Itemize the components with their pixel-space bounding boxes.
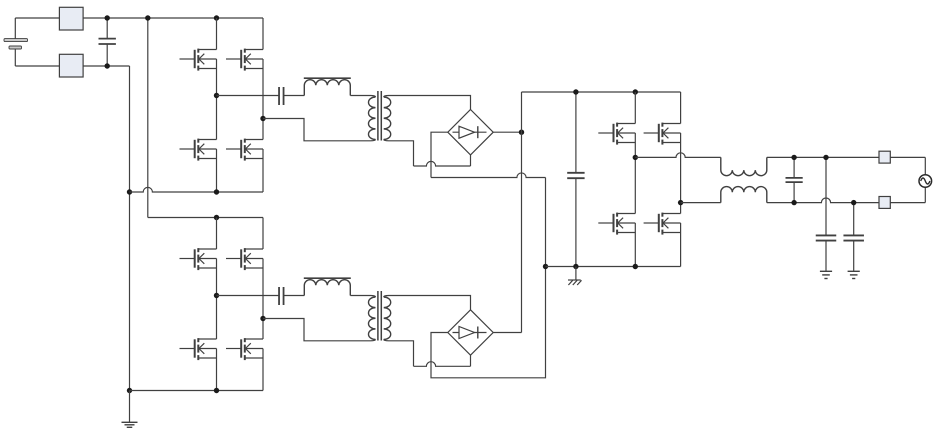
capacitor C6 (line EMI) xyxy=(816,157,837,271)
node upper bridge left midpoint xyxy=(214,93,219,98)
wire lower bridge left drain xyxy=(216,218,218,250)
diode of D2 xyxy=(453,327,487,339)
wire D2 negative out xyxy=(431,267,546,378)
wire inverter out 1 xyxy=(635,153,721,158)
rectifier bridge D1 xyxy=(448,110,493,155)
wire lower bridge top rail xyxy=(148,217,263,219)
transistor Q1 xyxy=(180,49,217,71)
wire dc+ rail xyxy=(522,91,681,93)
node dc- rail / inverter left leg xyxy=(633,264,638,269)
transistor Q10 xyxy=(644,123,681,145)
node inverter left midpoint xyxy=(633,155,638,160)
wire to ac source top xyxy=(924,157,926,174)
transistor Q6 xyxy=(226,248,263,270)
node lower bridge bottom rail / left leg xyxy=(214,388,219,393)
battery B1 xyxy=(4,18,28,66)
transistor Q2 xyxy=(226,49,263,71)
node bottom wire / C1 xyxy=(105,63,110,68)
wire T2 primary return xyxy=(263,319,376,341)
wire inverter right drain xyxy=(680,92,682,124)
transistor Q5 xyxy=(180,248,217,270)
wire negative bus vertical xyxy=(129,66,131,391)
transformer T1 secondary xyxy=(384,97,391,140)
wire inverter left source xyxy=(634,223,636,267)
wire inverter left leg xyxy=(634,133,636,214)
wire secondary to rectifier ac2 (lower) xyxy=(414,362,471,367)
transistor Q4 xyxy=(226,139,263,161)
wire T1 secondary top xyxy=(384,96,471,110)
wire lower bridge right drain xyxy=(262,218,264,250)
wire dc- vertical xyxy=(545,178,547,267)
transistor Q8 xyxy=(226,338,263,360)
wire lower bridge left leg xyxy=(216,259,218,340)
node out1 / C6 xyxy=(823,155,828,160)
node negative / lower bridge return xyxy=(127,388,132,393)
transformer T2 core xyxy=(377,291,379,341)
wire L4 to output xyxy=(767,198,926,203)
capacitor C3 (series) xyxy=(279,287,284,305)
transformer T1 core xyxy=(377,91,379,141)
capacitor C5 (output filter) xyxy=(786,157,803,202)
rectifier bridge D2 xyxy=(448,310,493,355)
node dc- rail / rectifier return xyxy=(543,264,548,269)
ground (dc bus) xyxy=(568,280,582,285)
wire dc+ bus vertical xyxy=(521,92,523,333)
inductor L4 xyxy=(721,187,767,203)
terminal TB1 xyxy=(879,151,890,163)
transistor Q12 xyxy=(644,213,681,235)
wire C2 to L1 xyxy=(284,95,305,97)
core of L2 xyxy=(304,277,351,279)
wire upper bridge right source xyxy=(262,149,264,192)
transformer T2 secondary xyxy=(384,297,391,340)
transistor Q3 xyxy=(180,139,217,161)
capacitor C4 (dc bus) xyxy=(567,92,584,267)
wire upper bridge left drain xyxy=(216,18,218,50)
capacitor C1 (input filter) xyxy=(99,18,116,66)
inductor L2 xyxy=(304,280,350,296)
wire C4 ground stub xyxy=(575,267,577,281)
fuse F1 xyxy=(59,7,83,30)
node top rail / C1 xyxy=(105,15,110,20)
node negative / upper bridge return xyxy=(127,189,132,194)
node dc+ rail / inverter left leg xyxy=(633,89,638,94)
wire D2 positive out xyxy=(493,332,521,334)
node lower bridge right midpoint xyxy=(260,316,265,321)
node dc- rail / C4 xyxy=(573,264,578,269)
wire D1 positive out xyxy=(493,131,521,133)
wire D1 negative to dc bus xyxy=(431,173,546,178)
node out2 / C5 xyxy=(791,200,796,205)
wire lower bridge right source xyxy=(262,349,264,391)
transformer T1 primary xyxy=(369,97,376,140)
capacitor C2 (series) xyxy=(279,87,284,105)
wire positive feed to lower bridge xyxy=(147,18,149,218)
core of L1 xyxy=(304,77,351,79)
wire upper bridge right leg xyxy=(262,59,264,140)
node inverter right midpoint xyxy=(678,200,683,205)
wire L2 to T2 xyxy=(350,296,375,298)
transformer T2 primary xyxy=(369,297,376,340)
node dc+ rail / C4 xyxy=(573,89,578,94)
wire inverter right source xyxy=(680,223,682,267)
ground (battery negative) xyxy=(122,391,138,428)
node upper bridge bottom rail / left leg xyxy=(214,189,219,194)
wire lower bridge right leg xyxy=(262,259,264,340)
wire T1 primary return xyxy=(263,119,376,141)
inductor L1 xyxy=(304,80,350,96)
wire T2 secondary bottom xyxy=(384,340,414,367)
transistor Q7 xyxy=(180,338,217,360)
wire top rail from battery to bridge xyxy=(15,17,263,19)
node out2 / C7 xyxy=(851,200,856,205)
wire upper bridge bottom rail xyxy=(130,187,264,192)
wire upper bridge right drain xyxy=(262,18,264,50)
diode of D1 xyxy=(453,126,487,138)
wire T1 secondary bottom xyxy=(384,140,414,167)
wire lower channel top xyxy=(217,295,280,297)
wire battery negative xyxy=(15,65,129,67)
wire secondary to rectifier ac2 xyxy=(414,161,471,166)
fuse F2 xyxy=(59,54,83,77)
ground (C7) xyxy=(848,271,860,278)
wire L3 to output xyxy=(767,156,926,158)
wire inverter left drain xyxy=(634,92,636,124)
node dc+ bus / D1 xyxy=(519,130,524,135)
wire L1 to T1 xyxy=(350,96,375,98)
wire lower bridge bottom rail xyxy=(130,390,264,392)
node lower bridge left midpoint xyxy=(214,293,219,298)
terminal TB2 xyxy=(879,197,890,209)
wire inverter right leg xyxy=(680,133,682,214)
wire upper channel top xyxy=(217,95,280,97)
wire C3 to L2 xyxy=(284,295,305,297)
inductor L3 xyxy=(721,157,767,175)
wire upper bridge left source xyxy=(216,149,218,192)
wire rectifier D1 bottom vertex xyxy=(470,155,472,166)
wire T2 secondary top xyxy=(384,296,471,310)
ground (C6) xyxy=(820,271,832,278)
transistor Q9 xyxy=(598,123,635,145)
node lower bridge top rail / left leg xyxy=(214,215,219,220)
wire upper bridge left leg xyxy=(216,59,218,140)
node upper bridge right midpoint xyxy=(260,116,265,121)
capacitor C7 (neutral EMI) xyxy=(843,203,864,271)
wire inverter out 2 xyxy=(681,202,721,204)
node top rail / upper bridge left leg xyxy=(214,15,219,20)
node out1 / C5 xyxy=(791,155,796,160)
wire lower bridge left source xyxy=(216,349,218,391)
ac source V1 xyxy=(919,175,932,188)
wire to ac source bottom xyxy=(924,187,926,202)
wire dc- rail xyxy=(546,266,681,268)
transistor Q11 xyxy=(598,213,635,235)
node top rail / lower bridge feed xyxy=(145,15,150,20)
wire D1 negative out xyxy=(431,132,448,177)
wire rectifier D2 bottom vertex xyxy=(470,355,472,366)
